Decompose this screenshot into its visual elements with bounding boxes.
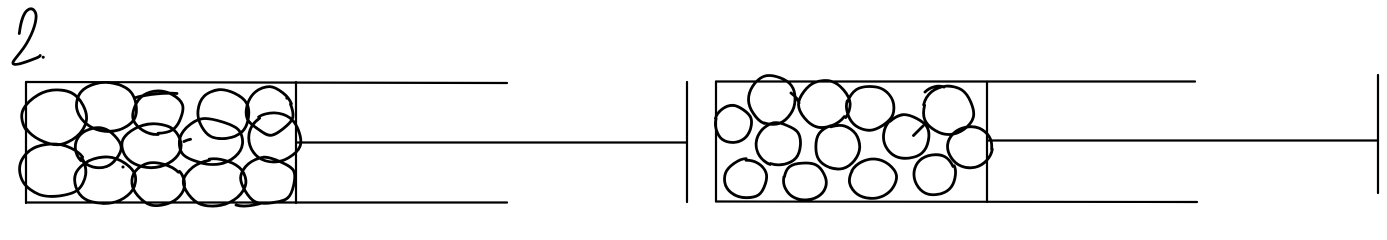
- gas molecule L9: [249, 113, 301, 162]
- stray dot mark: [285, 96, 288, 99]
- syringe 2 plunger handle: [1377, 75, 1379, 193]
- syringe 1 barrel closed left end: [25, 82, 27, 203]
- sketch tail near molecule R1: [791, 93, 799, 103]
- syringe 2 piston rod: [987, 139, 1378, 141]
- gas molecule R5: [715, 105, 751, 142]
- gas molecule R8: [884, 115, 929, 159]
- syringe 2 barrel bottom wall: [716, 200, 1197, 203]
- gas molecule R9: [948, 127, 993, 168]
- extra sketch stroke over molecule L3: [136, 93, 177, 97]
- gas molecule R2: [798, 81, 850, 128]
- syringe 1 piston rod: [296, 141, 687, 143]
- syringe 2 piston face: [986, 82, 988, 203]
- syringe 2 barrel closed left end: [715, 82, 717, 202]
- gas molecule R1: [749, 76, 796, 125]
- gas molecule R12: [849, 159, 896, 198]
- syringe 2 barrel top wall: [716, 80, 1195, 82]
- gas molecule L3: [133, 91, 183, 135]
- syringe 1 barrel bottom wall: [26, 201, 507, 203]
- gas molecule L1: [22, 90, 87, 145]
- gas molecule L11: [75, 157, 136, 203]
- gas molecule R11: [784, 163, 827, 200]
- gas molecule R7: [816, 125, 860, 169]
- gas molecule R10: [724, 159, 766, 198]
- extra sketch stroke under bottom wall: [236, 203, 262, 206]
- syringe 1 barrel top wall: [26, 82, 507, 83]
- syringe 1: [26, 82, 687, 203]
- syringe 1 plunger handle: [686, 82, 688, 202]
- gas molecule L2: [76, 82, 136, 131]
- gas molecule L14: [241, 157, 295, 203]
- gas molecule L6: [75, 128, 121, 168]
- gas molecule L8: [179, 118, 242, 164]
- gas molecule L4: [198, 90, 249, 139]
- gas molecule L5: [246, 87, 293, 136]
- gas molecule R3: [846, 86, 893, 130]
- stray dot inside pack: [122, 166, 125, 169]
- syringe 1 piston face: [295, 82, 297, 203]
- label 2. (problem number): [13, 9, 45, 65]
- gas molecule L13: [183, 159, 246, 206]
- gas molecule R4: [924, 86, 974, 134]
- stray tick near molecule R8: [914, 126, 924, 136]
- gas molecule R13: [914, 155, 956, 195]
- gas molecule R6: [756, 123, 800, 165]
- syringe 2 gas molecules: [715, 76, 992, 200]
- gas molecule L7: [122, 124, 181, 168]
- sketch hook on molecule R4: [925, 86, 944, 92]
- gas molecule L10: [20, 144, 86, 196]
- gas molecule L12: [132, 163, 185, 206]
- syringe 1 gas molecules: [20, 82, 301, 206]
- stray dash inside pack: [184, 139, 191, 141]
- syringe 2: [716, 75, 1378, 202]
